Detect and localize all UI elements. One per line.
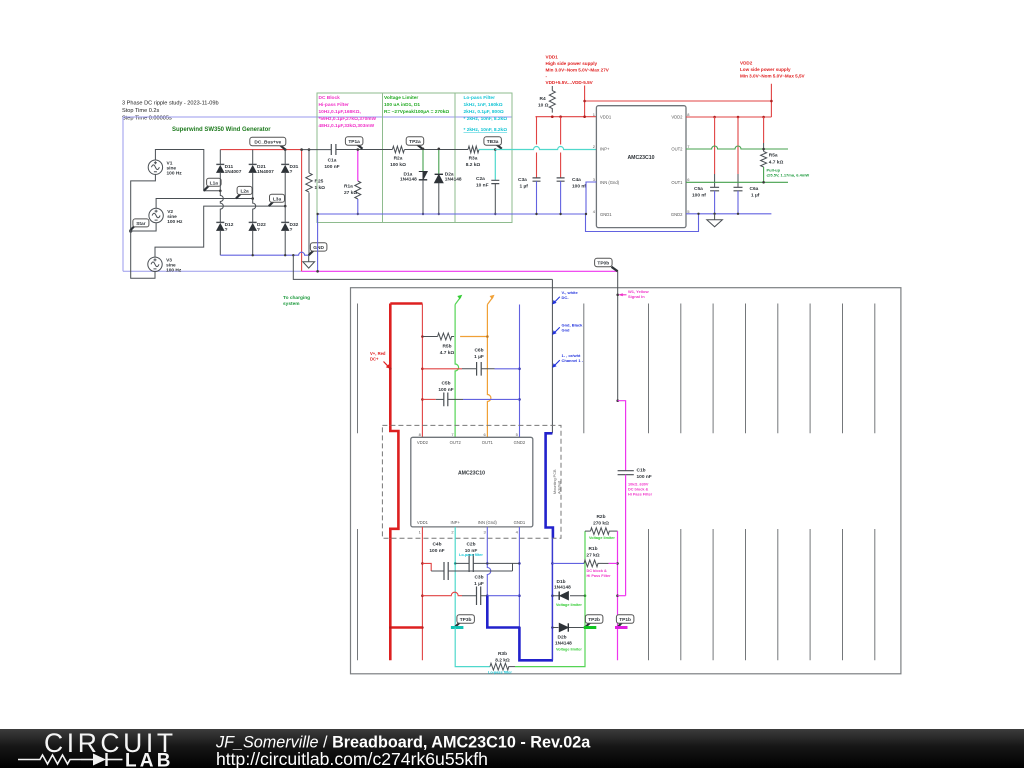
- wire: INN column below IC (blue): [487, 527, 491, 596]
- svg-text:GND1: GND1: [514, 520, 526, 525]
- svg-text:High side power supply: High side power supply: [546, 61, 598, 66]
- svg-text:3 Phase DC ripple study - 2023: 3 Phase DC ripple study - 2023-11-09b: [122, 101, 219, 107]
- svg-text:100 nf: 100 nf: [572, 184, 586, 190]
- label: DC block notes (magenta): [319, 95, 377, 129]
- wire: phase 2 (V2 to bridge): [156, 199, 253, 209]
- label: VDD1 power note (red): [546, 55, 610, 86]
- svg-text:Gnd: Gnd: [562, 328, 571, 333]
- svg-text:100 Hz: 100 Hz: [167, 219, 183, 225]
- svg-text:2kHz, 0.1µF, 800Ω: 2kHz, 0.1µF, 800Ω: [464, 109, 504, 115]
- svg-text:100 nF: 100 nF: [324, 164, 339, 170]
- wire: bottom power row (thick red): [390, 538, 422, 660]
- svg-text:Superwind SW350 Wind Generator: Superwind SW350 Wind Generator: [172, 127, 271, 133]
- svg-text:VDD1: VDD1: [417, 520, 429, 525]
- wire: phase 3 (V3 to bridge): [155, 206, 285, 257]
- svg-text:INP+: INP+: [600, 147, 610, 152]
- svg-text:INP+: INP+: [450, 520, 460, 525]
- svg-text:C5a: C5a: [694, 186, 703, 192]
- flag L1a: [204, 178, 221, 191]
- svg-text:INN (Gnd): INN (Gnd): [478, 520, 498, 525]
- label: voltage limiter notes (green): [384, 95, 449, 115]
- svg-text:TP1a: TP1a: [348, 139, 360, 145]
- wire: INN loop (blue): [586, 182, 699, 232]
- svg-text:GND1: GND1: [600, 212, 612, 217]
- resistor R1b: [552, 560, 608, 567]
- svg-text:1N4007: 1N4007: [257, 169, 274, 175]
- svg-text:@5.5V, 1.17ma, 6.4mW: @5.5V, 1.17ma, 6.4mW: [767, 173, 810, 178]
- source V3: [148, 257, 162, 271]
- diode D2b: [552, 623, 583, 631]
- svg-text:Voltage Limiter: Voltage Limiter: [384, 95, 418, 101]
- label: lo-pass notes (cyan): [464, 95, 508, 133]
- svg-text:L1a: L1a: [210, 180, 219, 186]
- resistor R3b: [490, 663, 515, 670]
- wire: OUT1 column (orange) with probe arrow: [487, 295, 494, 438]
- flag TP1a: [345, 137, 363, 149]
- capacitor C3a: [533, 117, 541, 214]
- wire: gnd rail (blue) filter section: [318, 213, 586, 215]
- resistor R2a: [392, 146, 404, 153]
- diode D32: [281, 222, 290, 255]
- diode D11: [216, 150, 225, 191]
- diode D22: [248, 222, 257, 255]
- svg-text:C1a: C1a: [328, 158, 337, 164]
- flag TP1b: [615, 615, 634, 628]
- wire: VDD2 column (thin red): [421, 304, 423, 438]
- svg-text:1N4007: 1N4007: [225, 169, 242, 175]
- svg-text:Hi Pass Filter: Hi Pass Filter: [587, 574, 612, 578]
- svg-text:R4: R4: [540, 96, 546, 102]
- svg-text:TP2b: TP2b: [588, 617, 600, 623]
- capacitor C5b row: [422, 393, 519, 407]
- svg-text:Step Time 0.00005s: Step Time 0.00005s: [122, 116, 172, 122]
- svg-text:Voltage limiter: Voltage limiter: [589, 536, 615, 540]
- svg-text:8.2 kΩ: 8.2 kΩ: [466, 162, 481, 168]
- svg-text:Lo-pass filter: Lo-pass filter: [488, 671, 512, 675]
- node: bridge phase3 junction: [284, 205, 287, 208]
- svg-text:LAB: LAB: [125, 751, 174, 768]
- diode D31: [281, 150, 290, 207]
- resistor R4: [549, 86, 555, 113]
- wire: phase 1 (V1 to bridge): [155, 150, 220, 191]
- wire: GND1 column below IC (blue): [518, 527, 520, 660]
- svg-text:TP0b: TP0b: [597, 261, 609, 267]
- svg-text:DC Block: DC Block: [319, 95, 341, 101]
- source V2: [149, 208, 163, 222]
- svg-text:VDD2: VDD2: [417, 440, 429, 445]
- svg-text:R1b: R1b: [588, 546, 597, 552]
- breadboard columns (top row): [358, 304, 875, 434]
- svg-text:4.7 kΩ: 4.7 kΩ: [440, 350, 455, 356]
- green box: Voltage Limiter: [383, 93, 456, 223]
- wire: signal row into C1a: [302, 149, 332, 151]
- svg-text:C6a: C6a: [750, 186, 759, 192]
- svg-text:?: ?: [290, 227, 293, 233]
- svg-text:Stop Time 0.2s: Stop Time 0.2s: [122, 108, 160, 114]
- flag DC_Bus+ve: [250, 137, 287, 151]
- svg-text:GND2: GND2: [671, 212, 683, 217]
- svg-text:TP3b: TP3b: [460, 617, 472, 623]
- label: VDD2 power note (red): [740, 61, 806, 79]
- svg-text:Min 3.0V~Nom 5.0V~Max 5,5V: Min 3.0V~Nom 5.0V~Max 5,5V: [740, 74, 806, 79]
- capacitor C3b row: [422, 587, 519, 606]
- capacitor C1a: [331, 144, 336, 155]
- wire: signal to C1b (magenta): [618, 401, 626, 471]
- svg-text:DC-: DC-: [562, 295, 570, 300]
- svg-text:1N4148: 1N4148: [400, 177, 417, 183]
- wire: VDD1 feed (red): [536, 86, 597, 117]
- source V1: [148, 160, 162, 174]
- wire: INP+ column below IC (cyan): [454, 527, 456, 628]
- svg-text:Lo-pass filter: Lo-pass filter: [459, 553, 483, 557]
- svg-text:R3a: R3a: [469, 156, 478, 162]
- wire: gnd to breadboard (gray): [293, 255, 552, 279]
- wire: R1a bottom (blue): [357, 199, 359, 214]
- svg-text:1kHz, 1nF, 160kΩ: 1kHz, 1nF, 160kΩ: [464, 102, 503, 108]
- svg-text:R= ~27Vpeak/100µA = 270kΩ: R= ~27Vpeak/100µA = 270kΩ: [384, 109, 449, 115]
- wire: OUT1 row (green): [686, 181, 788, 183]
- wire: V+ jumper (thick red): [390, 304, 422, 426]
- capacitor C1b: [618, 471, 634, 596]
- svg-text:Min 3.0V~Nom 5.0V~Max 27V: Min 3.0V~Nom 5.0V~Max 27V: [546, 68, 610, 73]
- svg-text:C3b: C3b: [474, 575, 483, 581]
- svg-text:R1a: R1a: [344, 184, 353, 190]
- capacitor C4a: [557, 117, 565, 214]
- annotation: simulation notes: [122, 101, 219, 122]
- svg-text:OUT1: OUT1: [482, 440, 494, 445]
- svg-text:L2a: L2a: [240, 189, 249, 195]
- svg-text:C3a: C3a: [518, 177, 527, 183]
- svg-text:OUT1: OUT1: [671, 180, 683, 185]
- wire: signal column (gray): [617, 271, 619, 400]
- svg-text:27 kΩ: 27 kΩ: [586, 553, 599, 559]
- diode D1a: [419, 149, 427, 214]
- wire: star point: [130, 174, 157, 278]
- svg-text:Voltage limiter: Voltage limiter: [556, 603, 582, 607]
- svg-text:D2b: D2b: [558, 635, 567, 641]
- svg-text:DC_Bus+ve: DC_Bus+ve: [254, 140, 281, 146]
- node: bridge phase1 junction: [219, 190, 222, 193]
- svg-text:*59Hz,0.1µF,27kΩ,370mW: *59Hz,0.1µF,27kΩ,370mW: [319, 116, 377, 122]
- op-amp U2: AMC23C10 (breadboard): [411, 432, 533, 535]
- svg-text:27 kΩ: 27 kΩ: [344, 190, 357, 196]
- svg-text:Hi-pass Filter: Hi-pass Filter: [319, 102, 350, 108]
- node: bridge phase2 junction: [251, 197, 254, 200]
- ground symbol (rectifier): [303, 255, 315, 268]
- capacitor C6b row: [422, 362, 519, 376]
- svg-text:1 µF: 1 µF: [474, 354, 484, 360]
- svg-text:AMC23C10: AMC23C10: [627, 155, 654, 161]
- svg-text:To charging: To charging: [283, 295, 310, 301]
- label: C1b note (magenta): [628, 483, 653, 497]
- svg-text:VDD1: VDD1: [600, 115, 612, 120]
- svg-text:OUT2: OUT2: [450, 440, 462, 445]
- svg-text:system: system: [283, 301, 300, 307]
- svg-text:DC block &: DC block &: [587, 569, 608, 573]
- flag TP0b: [595, 258, 618, 271]
- wire: bridge bottom rail (blue) with hop over red: [220, 252, 308, 255]
- svg-text:10 nF: 10 nF: [476, 183, 489, 189]
- wire: charging system (magenta): [302, 270, 618, 272]
- ground symbol (GND2): [707, 214, 723, 227]
- flag V- white DC- (blue arrow): [552, 290, 578, 305]
- capacitor C2a: [491, 150, 499, 215]
- wire: VDD2 pin8 rail (red): [686, 116, 771, 118]
- svg-text:1 µf: 1 µf: [751, 193, 760, 199]
- wire: GND2 rail right (blue): [686, 213, 771, 215]
- wire: column3 mid: [284, 206, 286, 222]
- wire: column2 mid with hop: [253, 199, 256, 223]
- svg-text:http://circuitlab.com/c274rk6u: http://circuitlab.com/c274rk6u55kfh: [216, 749, 488, 768]
- flag Gnd Black (blue arrow): [552, 323, 583, 335]
- svg-text:R3b: R3b: [498, 651, 507, 657]
- svg-text:10 Ω: 10 Ω: [538, 103, 549, 109]
- svg-text:Mounting PCB: Mounting PCB: [553, 469, 557, 494]
- wire: C1a to R2a: [336, 149, 393, 151]
- svg-text:4.7 kΩ: 4.7 kΩ: [769, 160, 784, 166]
- wire: signal row cyan with hops to INP+: [495, 147, 596, 150]
- svg-text:100 nf: 100 nf: [692, 193, 706, 199]
- svg-text:OUT2: OUT2: [671, 147, 683, 152]
- capacitor C6a: [734, 117, 743, 214]
- wire: blue drop to charging net: [317, 214, 319, 271]
- svg-text:VDD2: VDD2: [740, 61, 753, 66]
- wire: R2b right drop (magenta): [611, 530, 618, 532]
- wire: VDD1 column below IC (thin red): [421, 527, 423, 660]
- svg-text:VDD2: VDD2: [671, 115, 683, 120]
- flag V+ Red DC+ (red arrow): [370, 351, 392, 370]
- svg-text:48Hz,0.1µF,33kΩ,303mW: 48Hz,0.1µF,33kΩ,303mW: [319, 123, 375, 129]
- wire: R3a to C2a (cyan): [479, 149, 496, 151]
- logo resistor-diode glyph: [18, 753, 123, 766]
- green box: Lo-pass filter: [455, 93, 512, 223]
- wire: R2a to R3a: [404, 149, 468, 151]
- svg-text:270 kΩ: 270 kΩ: [593, 521, 609, 527]
- breadboard outline: [351, 288, 901, 674]
- wire: OUT2 row (green with hops): [686, 146, 788, 149]
- svg-text:R2a: R2a: [394, 156, 403, 162]
- svg-text:GND: GND: [313, 245, 324, 251]
- svg-text:TP1b: TP1b: [619, 617, 631, 623]
- svg-text:* 2kHz, 10nF, 8.2kΩ: * 2kHz, 10nF, 8.2kΩ: [464, 127, 508, 133]
- diode D12: [216, 222, 225, 255]
- svg-text:Voltage limiter: Voltage limiter: [556, 648, 582, 652]
- selection rectangle (blue): [123, 117, 512, 271]
- svg-text:R5a: R5a: [769, 153, 778, 159]
- diode D1b: [552, 592, 585, 600]
- resistor R5b: [422, 333, 454, 340]
- svg-text:Lo-pass Filter: Lo-pass Filter: [464, 95, 496, 101]
- dashed box: PCB adapter: [382, 425, 561, 538]
- op-amp U1: AMC23C10 comparator: [593, 106, 691, 228]
- flag TB3a: [484, 137, 502, 149]
- wire: thick blue bottom loop: [487, 596, 553, 661]
- wire: DC bus top rail (red): [220, 149, 301, 151]
- wire: INP+ to R3b (cyan): [455, 628, 490, 667]
- svg-text:V+, Red: V+, Red: [370, 351, 386, 356]
- svg-text:C4b: C4b: [432, 542, 441, 548]
- svg-text:100 Hz: 100 Hz: [166, 268, 182, 274]
- resistor R5a (pull-up): [761, 117, 767, 184]
- svg-text:100 nF: 100 nF: [438, 387, 453, 393]
- svg-text:INN (Gnd): INN (Gnd): [600, 180, 620, 185]
- wire: R3b to green riser: [515, 531, 585, 667]
- svg-text:Low side power supply: Low side power supply: [740, 67, 791, 72]
- svg-text:L3a: L3a: [273, 196, 282, 202]
- svg-text:10kΩ_630V: 10kΩ_630V: [628, 483, 649, 487]
- svg-text:10Hz,0.1µF,168KΩ,: 10Hz,0.1µF,168KΩ,: [319, 109, 362, 115]
- svg-text:Hi Pass Filter: Hi Pass Filter: [628, 493, 653, 497]
- wire: R1a tap (magenta): [357, 150, 359, 182]
- wire: DC bus down to charging tap (red): [301, 150, 303, 272]
- wire: VDD2 top feed (red): [586, 84, 771, 117]
- svg-text:C4a: C4a: [572, 177, 581, 183]
- svg-text:C5b: C5b: [441, 381, 450, 387]
- svg-text:8.2 kΩ: 8.2 kΩ: [495, 658, 510, 664]
- svg-text:1N4148: 1N4148: [555, 641, 572, 647]
- svg-text:?: ?: [257, 227, 260, 233]
- svg-text:DC block &: DC block &: [628, 488, 649, 492]
- capacitor C4b row: [422, 562, 512, 580]
- svg-text:100 uA inD1, D1: 100 uA inD1, D1: [384, 102, 420, 108]
- svg-text:100 nF: 100 nF: [429, 548, 444, 554]
- resistor R1a (vertical): [355, 181, 361, 199]
- svg-text:D1b: D1b: [557, 579, 566, 585]
- resistor R25: [306, 150, 312, 256]
- wire: OUT2 column (green) with probe arrow: [455, 295, 462, 438]
- svg-text:DC+: DC+: [370, 357, 379, 362]
- svg-text:C1b: C1b: [637, 468, 646, 474]
- flag TP2a: [406, 137, 424, 149]
- breadboard columns (bottom row): [358, 529, 875, 660]
- svg-text:100 Hz: 100 Hz: [167, 171, 183, 177]
- svg-text:?: ?: [225, 227, 228, 233]
- svg-text:AMC23C10: AMC23C10: [458, 471, 485, 477]
- svg-text:C2b: C2b: [466, 542, 475, 548]
- svg-text:100 nF: 100 nF: [637, 474, 652, 480]
- svg-text:TB3a: TB3a: [487, 139, 499, 145]
- svg-text:R2b: R2b: [596, 514, 605, 520]
- svg-text:GND2: GND2: [514, 440, 526, 445]
- flag Star: [131, 219, 149, 230]
- svg-text:VDD+5.5V....VDD-5.5V: VDD+5.5V....VDD-5.5V: [546, 80, 594, 85]
- svg-text:1N4148: 1N4148: [445, 177, 462, 183]
- svg-text:1 µF: 1 µF: [474, 581, 484, 587]
- capacitor C2b row: [455, 554, 519, 572]
- svg-text:?: ?: [290, 169, 293, 175]
- diode D21: [248, 150, 257, 199]
- resistor R2b: [585, 528, 611, 535]
- svg-text:Channel 1 -: Channel 1 -: [562, 358, 584, 363]
- wire: C1b bottom elbow (magenta): [618, 595, 626, 597]
- svg-text:R25: R25: [315, 179, 324, 185]
- diode D2a: [435, 149, 443, 214]
- svg-text:Star: Star: [136, 221, 145, 227]
- wire: sense return (gray) from gnd rail: [551, 279, 553, 433]
- green box: DC Block filter: [317, 93, 383, 223]
- svg-text:1 kΩ: 1 kΩ: [315, 185, 326, 191]
- svg-text:R5b: R5b: [442, 344, 451, 350]
- wire: column1 mid with hops: [220, 191, 223, 223]
- flag L2a: [236, 186, 252, 198]
- svg-text:100 kΩ: 100 kΩ: [390, 162, 406, 168]
- flag TP3b: [451, 615, 475, 628]
- svg-text:1N4148: 1N4148: [554, 585, 571, 591]
- wire: GND2 column (blue): [519, 305, 521, 438]
- wire: thick blue jumper into PCB: [546, 433, 553, 538]
- capacitor C5a: [710, 117, 719, 214]
- wire: thick red jumper inside PCB: [390, 425, 398, 538]
- svg-text:VDD1: VDD1: [546, 55, 559, 60]
- flag W1 Yellow Signal In (magenta arrow): [618, 289, 649, 299]
- flag Channel 1- (blue arrow): [552, 353, 584, 368]
- flag TP2b: [584, 615, 603, 628]
- svg-text:C2a: C2a: [476, 176, 485, 182]
- svg-text:C6b: C6b: [474, 348, 483, 354]
- flag L3a: [269, 194, 285, 206]
- svg-text:1 µf: 1 µf: [520, 184, 529, 190]
- svg-text:* 2kHz, 10nF, 8.2kΩ: * 2kHz, 10nF, 8.2kΩ: [464, 116, 508, 122]
- resistor R3a: [468, 146, 479, 153]
- flag GND: [309, 243, 327, 256]
- svg-text:Signal In: Signal In: [628, 294, 645, 299]
- svg-text:TP2a: TP2a: [409, 139, 421, 145]
